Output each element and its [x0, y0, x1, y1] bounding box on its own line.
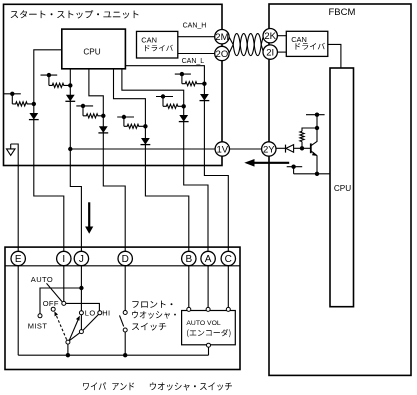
- junction dot P7: [315, 113, 319, 117]
- junction dot P2: [47, 73, 51, 77]
- wire pin 2I to CAN driver U3: [277, 51, 286, 53]
- blade position arrow to LO (solid): [69, 316, 80, 341]
- AUTO VOL terminal A: [206, 307, 210, 311]
- svg-text:1V: 1V: [216, 144, 228, 155]
- connector pin 2Y: [262, 142, 276, 156]
- connector pin 2M: [215, 30, 229, 44]
- svg-text:J: J: [79, 254, 84, 265]
- resistor R1: [12, 102, 34, 106]
- diode D1 (clamp on I column): [29, 113, 39, 120]
- AUTO VOL label line2 (encoder katakana): [187, 329, 230, 337]
- svg-text:CAN_H: CAN_H: [183, 23, 207, 30]
- leader line AUTO label to contact: [47, 283, 63, 301]
- connector pin A: [201, 251, 215, 265]
- svg-text:CAN: CAN: [291, 35, 307, 44]
- transistor Q1 emitter with arrow: [311, 151, 317, 174]
- svg-text:OFF: OFF: [43, 299, 59, 308]
- wire CAN driver U3 to CPU U4: [328, 44, 341, 68]
- contact pivot G: [66, 340, 70, 344]
- wire pin D to washer contact: [124, 266, 126, 311]
- wire R7 to base node: [301, 142, 303, 149]
- junction dot P1: [10, 92, 14, 96]
- svg-text:AUTO: AUTO: [31, 275, 53, 284]
- title label: start-stop unit (katakana): [11, 10, 139, 18]
- CAN driver U3 label line2 (katakana doraiba): [296, 43, 325, 50]
- resistor R3: [83, 114, 103, 118]
- junction dot node A-R5: [182, 104, 186, 108]
- diode D6 (clamp on C column): [200, 94, 210, 101]
- junction dot P3: [81, 104, 85, 108]
- wire P1 to resistor R1: [11, 93, 13, 104]
- connector pin J: [74, 251, 88, 265]
- wire P8 down to emitter line: [293, 167, 295, 174]
- connector pin D: [118, 251, 132, 265]
- connector pin 2O: [215, 46, 229, 60]
- contact MIST: [38, 314, 42, 318]
- transistor Q1 base bar: [310, 143, 312, 153]
- svg-text:CPU: CPU: [334, 184, 351, 193]
- ground bus wire: [18, 354, 208, 356]
- connector strip inner line: [5, 265, 240, 267]
- front washer switch label line3: [132, 323, 166, 331]
- junction dot emitter node: [315, 172, 319, 176]
- wire AUTO contact to HI contact: [66, 303, 100, 311]
- wire pin E down to bus: [17, 266, 19, 355]
- FBCM enclosure box: [269, 4, 411, 375]
- wire CAN_L from CAN driver to pin 2O: [178, 53, 215, 55]
- wire washer lower contact to bus: [124, 332, 126, 355]
- contact HI: [98, 311, 102, 315]
- front washer switch label line2: [132, 311, 176, 319]
- contact LO: [79, 311, 83, 315]
- wire collector node to resistor R7: [302, 128, 317, 131]
- resistor R2: [49, 83, 70, 87]
- junction dot pivot on bus: [66, 353, 70, 357]
- svg-text:C: C: [225, 254, 232, 265]
- svg-text:I: I: [62, 254, 65, 265]
- junction dot node J-R2: [68, 83, 72, 87]
- resistor R6: [182, 82, 205, 86]
- wire CPU U1 right pin to node C column: [125, 66, 228, 259]
- contact OFF: [51, 307, 55, 311]
- junction dot P4: [122, 115, 126, 119]
- diode D7 (open, pointing left): [286, 145, 294, 153]
- wire pin 1V to pin 2Y: [230, 148, 262, 150]
- washer contact upper: [123, 311, 127, 315]
- diode D2 (clamp on J column): [65, 95, 75, 102]
- svg-text:AUTO VOL: AUTO VOL: [186, 320, 220, 327]
- wire pin A to AUTO VOL: [207, 266, 209, 308]
- junction dot washer on bus: [123, 353, 127, 357]
- wire CPU U1 pin to node J column (through 1V tap): [70, 69, 81, 259]
- svg-text:FBCM: FBCM: [328, 7, 355, 18]
- connector pin C: [221, 251, 235, 265]
- signal-flow bold arrow (left): [244, 159, 289, 167]
- junction dot collector node: [315, 126, 319, 130]
- junction dot node B-R4: [143, 124, 147, 128]
- switch blade pivot to common: [69, 333, 80, 341]
- junction dot base node: [300, 146, 304, 150]
- power stub node P3: [76, 105, 93, 107]
- resistor R7 (base bias): [300, 131, 304, 141]
- contact AUTO (node on I): [62, 301, 66, 305]
- wire bus up to AUTO VOL: [208, 347, 210, 355]
- wire MIST branch: [40, 288, 81, 314]
- svg-text:2M: 2M: [215, 32, 228, 43]
- power stub node P7 (FBCM): [306, 114, 325, 116]
- wire pivot G to ground bus: [67, 344, 69, 355]
- wire P5 to resistor R5: [162, 96, 164, 106]
- svg-text:B: B: [185, 254, 192, 265]
- connector pin E: [11, 251, 25, 265]
- junction dot node C-R6: [202, 82, 206, 86]
- off-page hollow arrow (to ground): [7, 144, 16, 155]
- svg-text:HI: HI: [102, 308, 110, 317]
- wire P3 to resistor R3: [82, 105, 84, 116]
- wire P2 to resistor R2: [48, 75, 50, 86]
- svg-text:2I: 2I: [266, 47, 274, 58]
- power stub node P2: [41, 74, 58, 76]
- resistor R5: [163, 104, 184, 108]
- svg-text:2Y: 2Y: [263, 144, 275, 155]
- CAN driver U2 box (start-stop unit): [137, 31, 178, 58]
- wire node 1V line from J column to pin 1V: [70, 148, 215, 150]
- switch blade common to HI: [83, 315, 98, 331]
- wire P4 to resistor R4: [123, 116, 125, 126]
- power stub node P5: [156, 96, 173, 98]
- connector pin 1V: [215, 142, 229, 156]
- power stub node P6: [175, 73, 191, 75]
- wire pin 2Y to diode D7: [276, 147, 286, 149]
- diode D3 (clamp on D column): [98, 126, 108, 133]
- resistor R4: [124, 124, 145, 128]
- wire pin I to AUTO contact: [63, 266, 65, 302]
- wire pin C to AUTO VOL: [227, 266, 229, 308]
- svg-text:A: A: [205, 254, 212, 265]
- connector pin 2K: [263, 29, 277, 43]
- power stub node P1: [4, 93, 21, 95]
- wire diode D7 to base node: [294, 147, 302, 149]
- connector pin I: [57, 251, 71, 265]
- svg-text:D: D: [122, 254, 129, 265]
- CPU U4 box (FBCM): [330, 68, 354, 307]
- wire CPU U1 pin to node A column: [122, 69, 208, 259]
- blade position arrow to OFF (dashed): [54, 311, 66, 339]
- svg-text:2K: 2K: [264, 31, 276, 42]
- diode D5 (clamp on A column): [179, 115, 189, 122]
- wire pin 2K to CAN driver U3: [277, 35, 286, 37]
- wire emitter node to CPU U4: [294, 173, 330, 175]
- CAN driver U3 box (FBCM): [286, 31, 328, 56]
- svg-text:CAN: CAN: [141, 36, 157, 45]
- wire pin B to AUTO VOL: [188, 266, 190, 308]
- svg-text:E: E: [15, 254, 22, 265]
- wire P7 down to collector node: [316, 115, 318, 128]
- junction dot node I-R1: [32, 102, 36, 106]
- junction dot P6: [180, 72, 184, 76]
- wire CPU U1 pin to node D column: [89, 69, 125, 259]
- wire pin J down to LO contact: [80, 266, 82, 311]
- wire CPU U1 pin to node B column: [114, 69, 189, 259]
- CAN driver U2 label line2 (katakana doraiba): [145, 45, 173, 52]
- junction dot J column / 1V line: [68, 147, 72, 151]
- junction dot P5: [161, 94, 165, 98]
- signal-flow bold arrow (down): [85, 202, 93, 234]
- diode D4 (clamp on B column): [141, 138, 151, 145]
- svg-text:2O: 2O: [216, 49, 229, 60]
- AUTO VOL terminal common (bottom): [207, 343, 211, 347]
- power stub node P4: [117, 116, 134, 118]
- wire P6 to resistor R6: [181, 74, 183, 84]
- front washer switch label line1: [132, 301, 172, 308]
- washer switch blade: [120, 315, 124, 326]
- AUTO VOL encoder box: [182, 311, 236, 345]
- power stub node P8 (FBCM): [287, 166, 303, 168]
- wire arrow node to pin E: [11, 144, 19, 259]
- svg-text:MIST: MIST: [28, 321, 48, 330]
- twisted-pair CAN bus symbol between units: [229, 34, 264, 56]
- wire CAN_H from CAN driver to pin 2M: [178, 36, 215, 38]
- junction dot J column / MIST branch: [79, 286, 83, 290]
- svg-text:LO: LO: [85, 308, 96, 317]
- caption: wiper and washer switch (katakana) word1: [83, 382, 106, 390]
- junction dot node D-R3: [101, 114, 105, 118]
- svg-text:CPU: CPU: [83, 47, 100, 56]
- washer contact lower: [123, 328, 127, 332]
- contact common (below LO): [79, 330, 83, 334]
- connector pin B: [182, 251, 196, 265]
- AUTO VOL terminal C: [226, 307, 230, 311]
- caption word2: [112, 383, 134, 391]
- wire CPU U1 left pin to node I column: [34, 50, 64, 259]
- wire base node to transistor Q1 base: [302, 147, 311, 149]
- AUTO VOL terminal B: [187, 307, 191, 311]
- CPU U1 box (start-stop unit): [62, 29, 126, 69]
- start-stop unit enclosure box: [4, 4, 223, 165]
- wire LO contact to common contact: [80, 315, 82, 330]
- wiper-and-washer switch enclosure box: [5, 247, 240, 369]
- junction dot P8: [291, 165, 295, 169]
- connector pin 2I: [263, 45, 277, 59]
- caption word3: [150, 382, 232, 390]
- transistor Q1 collector: [311, 129, 317, 146]
- svg-text:CAN_L: CAN_L: [182, 58, 205, 65]
